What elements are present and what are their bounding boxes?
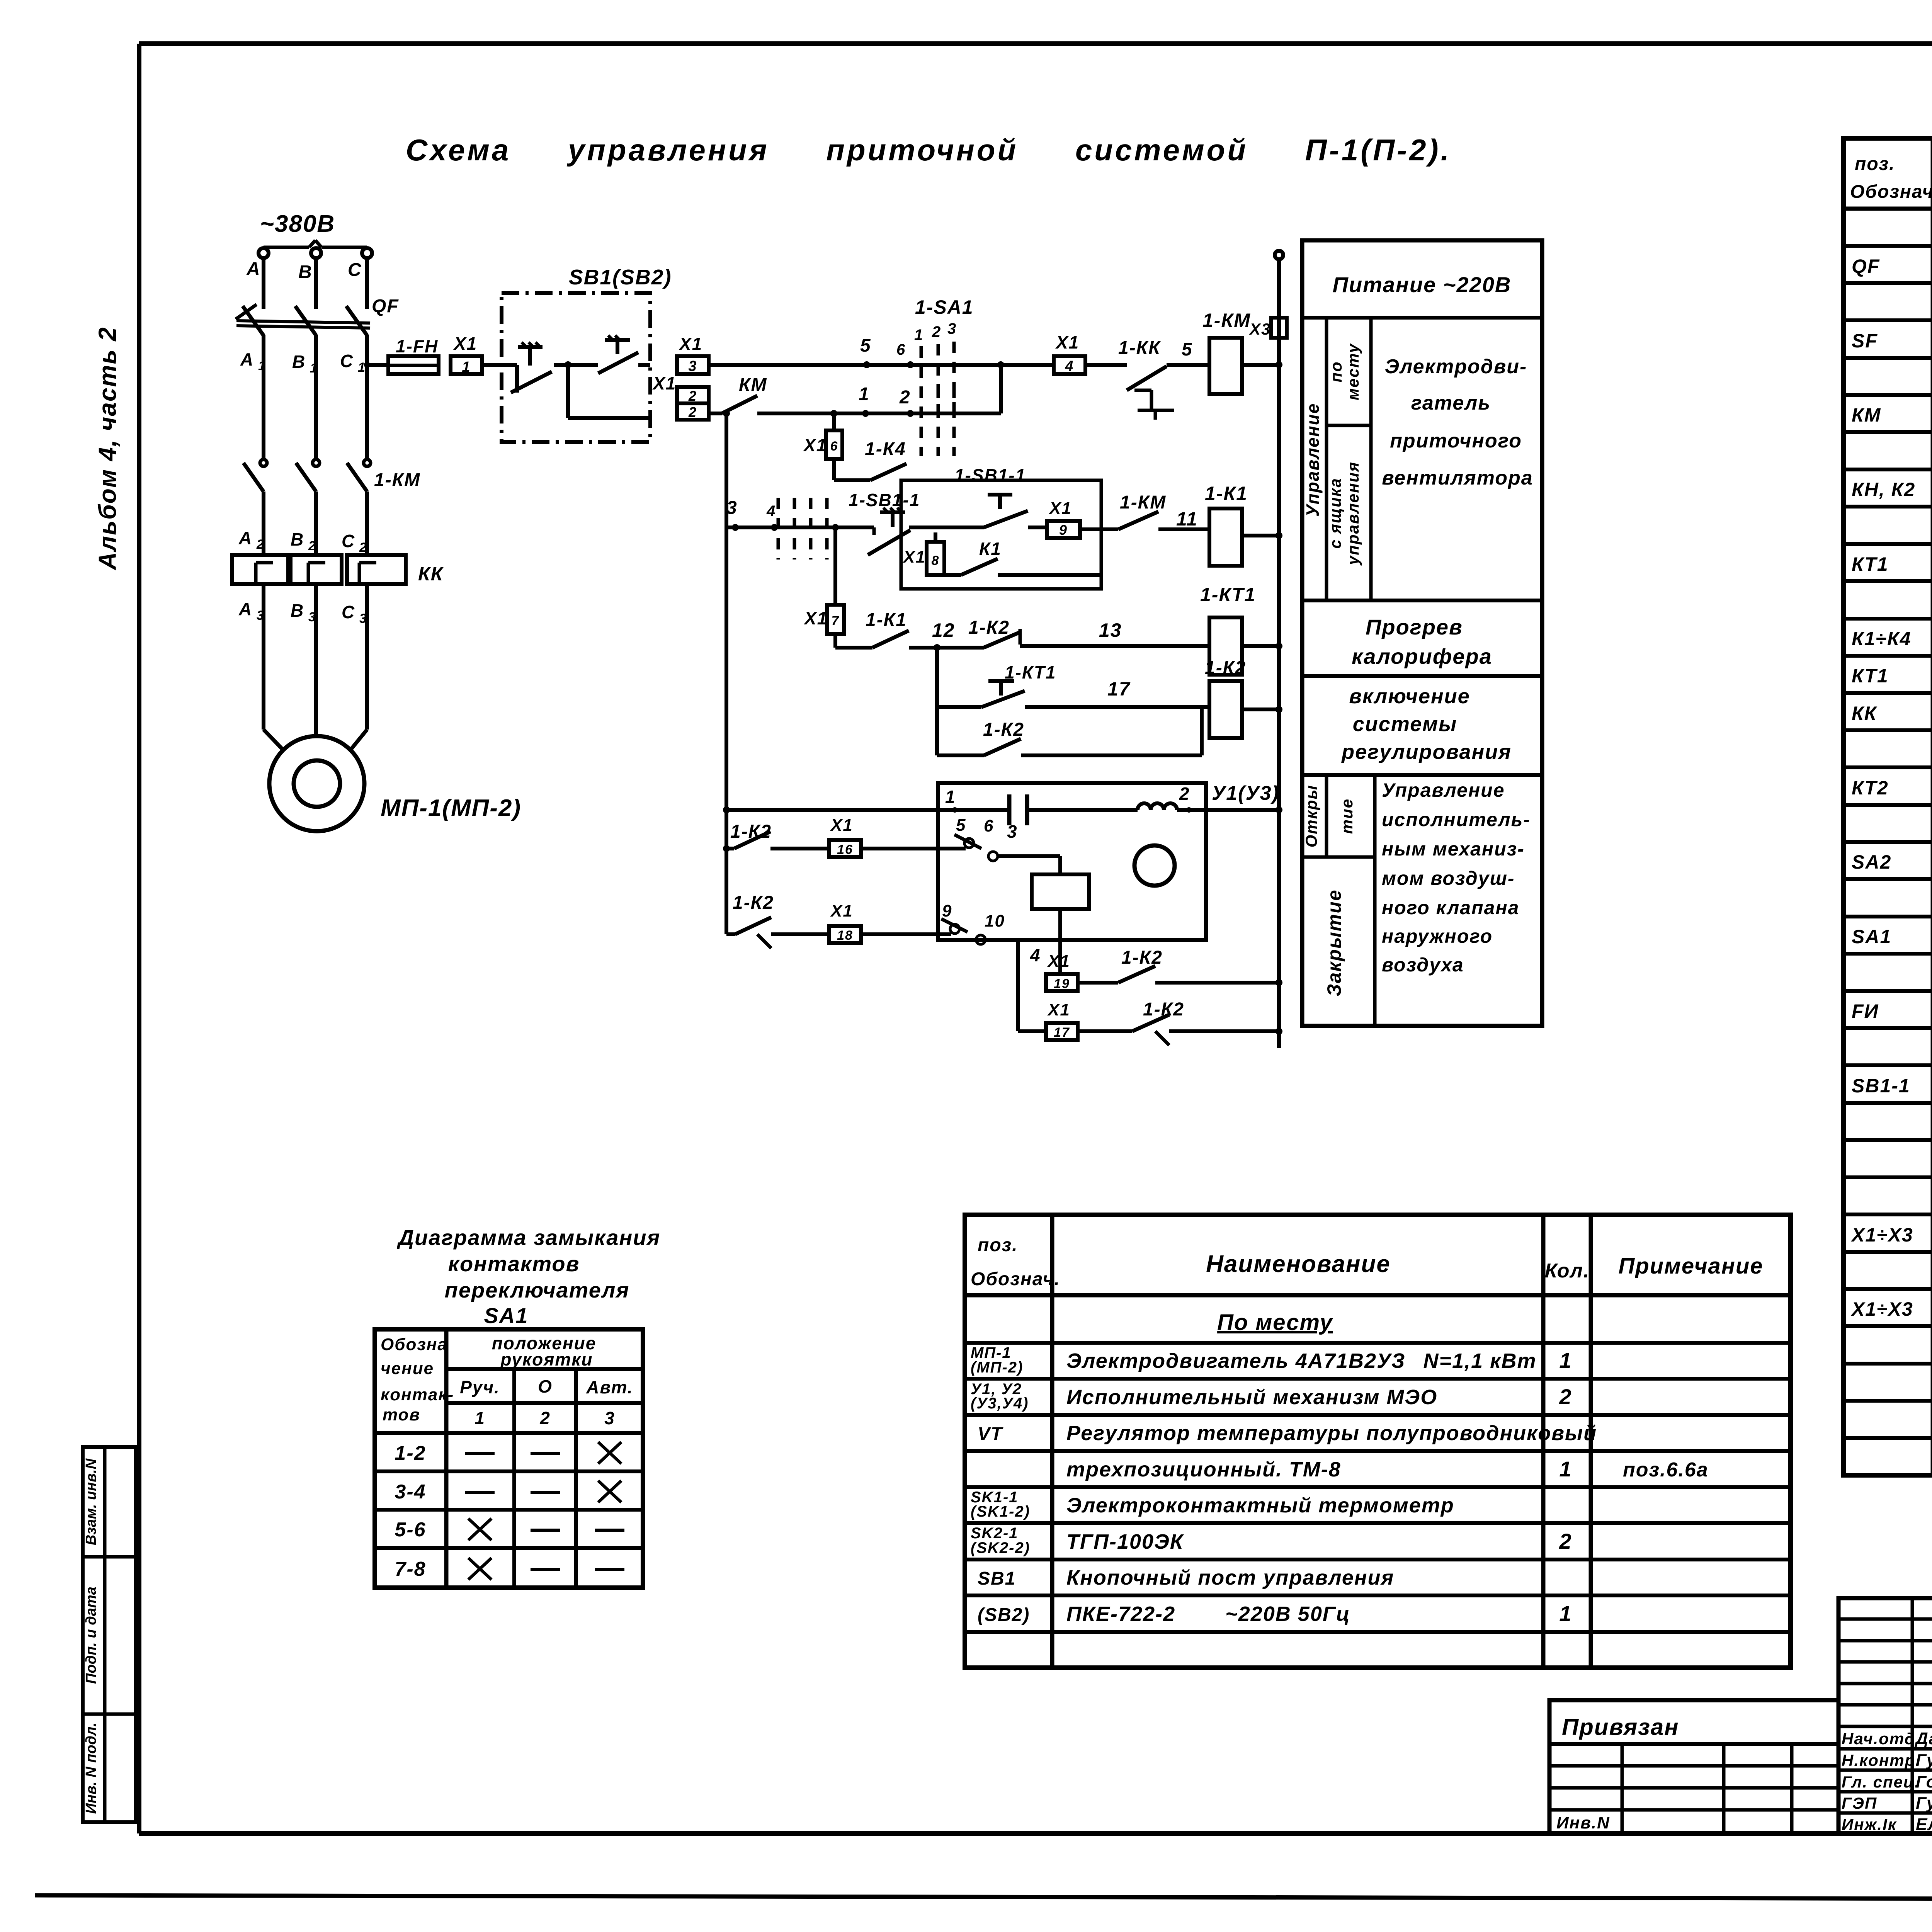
svg-text:Х1: Х1: [830, 901, 853, 920]
svg-text:6: 6: [896, 341, 906, 358]
svg-text:месту: месту: [1344, 343, 1362, 400]
svg-text:Взам. инв.N: Взам. инв.N: [83, 1458, 99, 1545]
svg-text:А: А: [246, 259, 261, 279]
svg-text:регулирования: регулирования: [1341, 740, 1512, 764]
svg-text:VT: VT: [978, 1424, 1003, 1444]
svg-text:9: 9: [1059, 522, 1068, 538]
svg-text:А: А: [240, 349, 254, 369]
svg-text:рукоятки: рукоятки: [500, 1349, 593, 1369]
svg-text:~380В: ~380В: [260, 211, 335, 237]
svg-text:гатель: гатель: [1411, 392, 1491, 414]
svg-text:1-К4: 1-К4: [865, 439, 906, 459]
svg-text:ТГП-100ЭК: ТГП-100ЭК: [1066, 1530, 1184, 1553]
svg-text:2: 2: [932, 323, 941, 340]
svg-text:Х1: Х1: [1047, 1000, 1070, 1019]
svg-text:исполнитель-: исполнитель-: [1382, 809, 1531, 830]
svg-text:19: 19: [1054, 976, 1070, 991]
svg-text:ного клапана: ного клапана: [1382, 897, 1519, 918]
svg-text:С: С: [348, 260, 362, 280]
svg-text:Х1: Х1: [652, 373, 676, 393]
svg-text:8: 8: [932, 553, 940, 568]
svg-text:воздуха: воздуха: [1382, 954, 1464, 976]
svg-text:наружного: наружного: [1382, 925, 1493, 947]
svg-text:Обознач.: Обознач.: [971, 1269, 1060, 1289]
svg-text:1-К2: 1-К2: [983, 719, 1024, 740]
svg-text:3: 3: [1007, 821, 1018, 842]
svg-text:Авт.: Авт.: [586, 1377, 633, 1397]
svg-text:2: 2: [539, 1408, 551, 1428]
svg-text:системы: системы: [1353, 713, 1457, 736]
svg-text:1-SA1: 1-SA1: [915, 296, 974, 318]
svg-text:по: по: [1327, 361, 1345, 382]
svg-text:6: 6: [830, 439, 838, 454]
svg-text:X1÷X3: X1÷X3: [1850, 1298, 1913, 1320]
svg-text:калорифера: калорифера: [1352, 644, 1492, 668]
svg-text:SF: SF: [1852, 330, 1878, 352]
svg-text:Электроконтактный термометр: Электроконтактный термометр: [1066, 1494, 1454, 1517]
svg-text:5: 5: [956, 816, 966, 835]
svg-text:Электродвигатель 4А71В2УЗ N=1: Электродвигатель 4А71В2УЗ N=1,1 кВт: [1066, 1349, 1537, 1372]
svg-text:7: 7: [832, 614, 840, 628]
svg-text:1: 1: [258, 359, 266, 373]
svg-text:Х1: Х1: [1047, 952, 1070, 971]
svg-text:Руч.: Руч.: [460, 1377, 500, 1397]
svg-text:ным механиз-: ным механиз-: [1382, 838, 1525, 860]
svg-text:Х1: Х1: [678, 334, 702, 354]
svg-text:FИ: FИ: [1852, 1000, 1879, 1022]
svg-text:ГЭП: ГЭП: [1842, 1794, 1877, 1812]
svg-text:Схема управления приточной: Схема управления приточной системой П-1(…: [406, 133, 1451, 167]
svg-text:Альбом 4, часть 2: Альбом 4, часть 2: [94, 327, 121, 571]
svg-text:Елизарова: Елизарова: [1916, 1815, 1932, 1834]
svg-text:17: 17: [1054, 1025, 1070, 1040]
svg-text:ПКЕ-722-2 ~220В 50Гц: ПКЕ-722-2 ~220В 50Гц: [1066, 1602, 1350, 1626]
svg-text:13: 13: [1099, 619, 1122, 641]
svg-text:SB1-1: SB1-1: [1852, 1075, 1910, 1097]
svg-text:4: 4: [1065, 358, 1074, 374]
svg-text:2: 2: [308, 539, 316, 553]
svg-text:1-К2: 1-К2: [1205, 658, 1246, 678]
svg-text:тие: тие: [1338, 798, 1356, 834]
svg-text:(У3,У4): (У3,У4): [971, 1395, 1029, 1412]
svg-text:мом воздуш-: мом воздуш-: [1382, 867, 1515, 889]
svg-text:По месту: По месту: [1217, 1310, 1333, 1335]
svg-text:Инж.Iк: Инж.Iк: [1842, 1815, 1897, 1833]
svg-text:В: В: [292, 352, 306, 372]
svg-text:Х1: Х1: [1048, 499, 1072, 518]
svg-text:Примечание: Примечание: [1618, 1253, 1763, 1279]
svg-text:1-К1: 1-К1: [866, 610, 907, 630]
svg-text:3-4: 3-4: [395, 1481, 426, 1503]
svg-text:5: 5: [860, 335, 871, 356]
svg-text:Гл. спец.: Гл. спец.: [1842, 1773, 1920, 1791]
svg-text:А: А: [238, 528, 252, 548]
svg-text:У1(У3): У1(У3): [1212, 782, 1279, 804]
svg-text:Х1: Х1: [453, 333, 477, 354]
svg-text:приточного: приточного: [1390, 430, 1522, 452]
svg-text:Кнопочный пост управления: Кнопочный пост управления: [1066, 1566, 1394, 1589]
svg-text:SB1: SB1: [978, 1568, 1016, 1589]
svg-text:КК: КК: [418, 563, 444, 585]
svg-text:1: 1: [310, 361, 318, 376]
svg-text:QF: QF: [372, 296, 399, 316]
svg-text:К1: К1: [979, 539, 1002, 559]
svg-text:управления: управления: [1344, 461, 1362, 566]
svg-text:18: 18: [837, 928, 853, 943]
svg-text:Гусева: Гусева: [1916, 1794, 1932, 1813]
svg-text:4: 4: [766, 503, 776, 520]
svg-text:вентилятора: вентилятора: [1382, 467, 1533, 489]
svg-text:1-КК: 1-КК: [1118, 338, 1161, 358]
svg-text:КМ: КМ: [1852, 404, 1881, 426]
svg-text:1: 1: [1559, 1457, 1572, 1481]
svg-text:3: 3: [604, 1408, 615, 1428]
svg-text:1-2: 1-2: [395, 1442, 426, 1464]
svg-text:3: 3: [688, 358, 697, 374]
svg-text:Диаграмма замыкания: Диаграмма замыкания: [397, 1225, 661, 1250]
svg-text:10: 10: [985, 912, 1005, 930]
svg-text:1: 1: [462, 359, 471, 375]
svg-text:1-FН: 1-FН: [396, 336, 438, 356]
svg-text:6: 6: [984, 816, 994, 835]
svg-text:1-К2: 1-К2: [968, 617, 1010, 638]
svg-text:В: В: [298, 262, 313, 282]
svg-text:Х1: Х1: [1055, 332, 1079, 352]
svg-text:1: 1: [945, 787, 956, 807]
svg-text:2: 2: [256, 537, 265, 552]
svg-text:Прогрев: Прогрев: [1366, 615, 1463, 639]
svg-text:17: 17: [1107, 678, 1131, 700]
svg-text:Инв.N: Инв.N: [1556, 1813, 1610, 1832]
svg-text:1: 1: [859, 384, 870, 405]
svg-text:О: О: [538, 1376, 553, 1396]
svg-text:2: 2: [1559, 1529, 1572, 1553]
svg-text:SB1(SB2): SB1(SB2): [569, 265, 672, 289]
svg-text:Привязан: Привязан: [1562, 1714, 1679, 1740]
svg-text:Наименование: Наименование: [1206, 1251, 1391, 1277]
svg-text:2: 2: [1179, 784, 1190, 804]
svg-text:5: 5: [1182, 339, 1193, 360]
svg-text:Откры: Откры: [1302, 785, 1320, 848]
svg-text:С: С: [342, 531, 355, 551]
svg-text:2: 2: [1559, 1384, 1572, 1409]
svg-text:(SK1-2): (SK1-2): [971, 1503, 1030, 1520]
svg-text:Инв. N подл.: Инв. N подл.: [83, 1723, 99, 1814]
svg-text:контактов: контактов: [448, 1252, 580, 1276]
svg-text:Питание ~220В: Питание ~220В: [1333, 272, 1512, 297]
svg-text:поз.6.6а: поз.6.6а: [1623, 1459, 1709, 1481]
svg-text:1-КТ1: 1-КТ1: [1200, 584, 1256, 605]
svg-text:КН, К2: КН, К2: [1852, 479, 1915, 500]
svg-text:КМ: КМ: [739, 375, 767, 395]
svg-text:1: 1: [1559, 1601, 1572, 1626]
svg-text:С: С: [342, 602, 355, 622]
svg-text:1: 1: [1559, 1348, 1572, 1372]
svg-text:11: 11: [1176, 508, 1198, 530]
svg-text:2: 2: [899, 387, 911, 408]
svg-text:Нач.отд.: Нач.отд.: [1842, 1730, 1920, 1748]
svg-text:трехпозиционный. ТМ-8: трехпозиционный. ТМ-8: [1066, 1458, 1341, 1481]
svg-text:Обозна: Обозна: [381, 1335, 448, 1354]
svg-text:КК: КК: [1852, 702, 1878, 724]
svg-text:В: В: [291, 600, 304, 621]
svg-text:1-КТ1: 1-КТ1: [1005, 662, 1056, 682]
svg-text:Обознач.: Обознач.: [1850, 182, 1932, 202]
svg-text:Данилов: Данилов: [1914, 1729, 1932, 1748]
svg-text:1: 1: [358, 360, 366, 375]
svg-text:С: С: [340, 351, 354, 371]
svg-text:(SK2-2): (SK2-2): [971, 1539, 1030, 1556]
svg-text:МП-1(МП-2): МП-1(МП-2): [381, 795, 521, 821]
svg-text:1: 1: [474, 1408, 485, 1428]
svg-text:12: 12: [932, 619, 955, 641]
svg-text:9: 9: [942, 901, 952, 920]
svg-text:5-6: 5-6: [395, 1519, 426, 1541]
svg-text:2: 2: [359, 540, 367, 555]
svg-text:Исполнительный механизм МЭО: Исполнительный механизм МЭО: [1066, 1386, 1437, 1409]
svg-text:Регулятор температуры полупров: Регулятор температуры полупроводниковый: [1066, 1422, 1597, 1445]
svg-text:1-К2: 1-К2: [1121, 947, 1163, 968]
svg-text:SA1: SA1: [484, 1303, 529, 1328]
svg-text:(МП-2): (МП-2): [971, 1359, 1023, 1376]
svg-text:16: 16: [837, 842, 853, 857]
svg-text:КТ2: КТ2: [1852, 777, 1889, 799]
svg-text:2: 2: [688, 388, 697, 404]
svg-text:Кол.: Кол.: [1545, 1260, 1590, 1282]
svg-text:поз.: поз.: [1855, 154, 1895, 174]
svg-text:1-КМ: 1-КМ: [1202, 310, 1251, 331]
svg-text:Управление: Управление: [1382, 779, 1505, 801]
svg-text:чение: чение: [381, 1359, 434, 1378]
svg-text:1-SB1-1: 1-SB1-1: [954, 465, 1026, 485]
svg-text:Гольцман: Гольцман: [1916, 1772, 1932, 1791]
svg-text:Х1: Х1: [803, 608, 828, 628]
svg-text:контак-: контак-: [381, 1385, 454, 1404]
svg-text:1: 1: [914, 327, 923, 344]
svg-text:Закрытие: Закрытие: [1323, 889, 1345, 996]
svg-text:тов: тов: [383, 1405, 420, 1424]
svg-text:1-КМ: 1-КМ: [1120, 492, 1166, 513]
svg-text:Гусева: Гусева: [1916, 1751, 1932, 1770]
svg-text:А: А: [238, 599, 252, 619]
svg-text:Х1: Х1: [803, 435, 827, 455]
svg-text:4: 4: [1030, 945, 1041, 965]
svg-text:Х1: Х1: [830, 816, 853, 835]
svg-text:SA1: SA1: [1852, 926, 1891, 947]
svg-text:QF: QF: [1852, 255, 1880, 277]
svg-text:3: 3: [947, 320, 957, 337]
svg-text:Н.контр.: Н.контр.: [1842, 1751, 1921, 1769]
svg-text:Х3: Х3: [1249, 320, 1271, 338]
svg-text:КТ1: КТ1: [1852, 553, 1889, 575]
svg-text:Управление: Управление: [1303, 403, 1323, 517]
svg-text:включение: включение: [1349, 685, 1470, 708]
svg-text:с ящика: с ящика: [1326, 478, 1344, 549]
svg-text:Электродви-: Электродви-: [1385, 355, 1527, 378]
svg-text:(SB2): (SB2): [978, 1605, 1030, 1625]
svg-text:7-8: 7-8: [395, 1558, 426, 1580]
svg-text:1-К1: 1-К1: [1205, 483, 1248, 504]
svg-text:SA2: SA2: [1852, 851, 1891, 873]
svg-text:К1÷К4: К1÷К4: [1852, 628, 1912, 650]
svg-text:1-К2: 1-К2: [733, 893, 774, 913]
svg-text:Х1: Х1: [902, 548, 926, 566]
svg-text:X1÷X3: X1÷X3: [1850, 1224, 1913, 1246]
svg-text:Подп. и дата: Подп. и дата: [83, 1587, 99, 1684]
svg-text:поз.: поз.: [978, 1235, 1018, 1255]
svg-text:переключателя: переключателя: [445, 1278, 630, 1302]
svg-text:КТ1: КТ1: [1852, 665, 1889, 687]
svg-text:1-КМ: 1-КМ: [374, 470, 420, 490]
svg-text:2: 2: [688, 404, 697, 420]
svg-text:В: В: [291, 529, 304, 549]
